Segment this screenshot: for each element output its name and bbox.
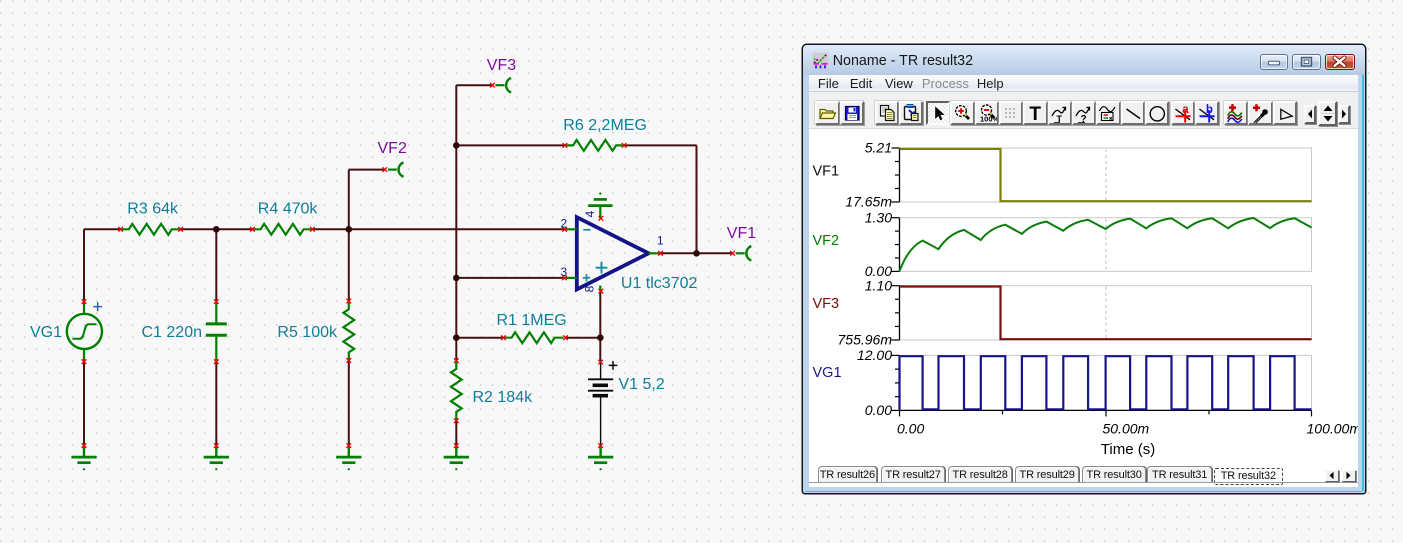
ground (VG1) [71,446,96,471]
node D (pin3 junction) [453,275,460,282]
battery V1 [588,361,617,446]
node A (C1 top junction) [213,226,220,233]
svg-text:12.00: 12.00 [857,347,892,363]
wire: R6 row y=145.5 [456,144,696,146]
svg-text:V1 5,2: V1 5,2 [619,376,665,393]
wire: R5 / VF2 branch x=349 [348,170,350,446]
svg-text:8: 8 [583,285,597,292]
wire: pin8 to node-C [599,291,601,338]
node F (R1 right/V1 junction) [597,334,604,341]
toolbar nav left [1304,105,1316,123]
voltage generator VG1 [30,299,102,364]
toolbar button zout [975,101,999,125]
window icon [812,52,829,69]
resistor R3 [118,201,183,235]
toolbar button paste [899,101,923,125]
toolbar button open [815,101,839,125]
node E (R1 left junction) [453,334,460,341]
tab TR result26 [818,466,878,482]
toolbar button curvq [1072,101,1096,125]
op-amp U1 tlc3702 [561,193,698,294]
trace VF1 [900,149,1312,201]
ground (V1) [588,446,613,471]
ground (C1) [204,446,229,471]
toolbar [809,92,1358,129]
tab TR result30 [1082,466,1146,482]
toolbar button copy [875,101,899,125]
tab TR result31 [1147,466,1212,482]
toolbar button leg [1096,101,1120,125]
svg-text:R1 1MEG: R1 1MEG [497,312,567,329]
50m gridline VG1 [1105,356,1107,409]
wire: VF3 horizontal stub [456,84,492,86]
resistor R2 [451,358,533,423]
node G (output/feedback junction) [693,250,700,257]
TR result window [803,45,1365,493]
svg-text:C1 220n: C1 220n [142,324,203,341]
voltage pin VF1 [736,246,752,260]
toolbar button tri [1273,101,1297,125]
toolbar button waves [1224,101,1248,125]
svg-text:R6 2,2MEG: R6 2,2MEG [563,117,647,134]
svg-text:VG1: VG1 [30,324,62,341]
svg-text:5.21: 5.21 [865,140,892,156]
wire: output row y=253.3 [661,252,733,254]
svg-text:17.65m: 17.65m [846,194,893,210]
plot frame VF1 [900,148,1312,202]
plot frame VF2 [900,218,1312,272]
toolbar button curvt [1048,101,1072,125]
tab TR result28 [948,466,1012,482]
resistor R1 [497,312,568,343]
50m gridline VF2 [1105,219,1107,271]
node C (VF3/R6 junction) [453,142,460,149]
svg-text:Time (s): Time (s) [1101,441,1155,458]
op-amp ground (pin 4 power symbol, flipped) [599,193,601,195]
wire: R2 bottom to ground [455,421,457,446]
voltage pin VF3 [495,78,511,92]
ground (R5) [336,446,361,471]
svg-text:0.00: 0.00 [897,421,924,437]
tab scroll right [1342,470,1356,482]
plot frame VG1 [900,355,1312,410]
plot frame VF3 [900,286,1312,340]
tab TR result29 [1015,466,1079,482]
svg-text:755.96m: 755.96m [838,332,893,348]
svg-text:0.00: 0.00 [865,402,892,418]
50m gridline VF3 [1105,287,1107,339]
svg-text:R2 184k: R2 184k [473,389,534,406]
title bar [803,45,1365,75]
toolbar button arrow [926,101,950,125]
node B (R5/VF2 junction) [346,226,353,233]
y-axis VG1 [892,355,900,410]
svg-text:VF2: VF2 [813,233,840,249]
capacitor C1 [142,299,227,364]
svg-text:U1 tlc3702: U1 tlc3702 [621,275,698,292]
toolbar button T [1023,101,1047,125]
y-axis VF3 [892,286,900,340]
svg-text:3: 3 [561,265,568,279]
tab scroll left [1325,470,1339,482]
wire: pin3 wire y=278 [456,277,564,279]
svg-text:VF1: VF1 [727,225,756,242]
svg-text:VF1: VF1 [813,163,840,179]
y-axis VF2 [892,218,900,272]
toolbar button line [1121,101,1145,125]
svg-text:50.00m: 50.00m [1103,421,1150,437]
trace VG1 [900,356,1312,409]
wire: C1 branch x=216 [215,229,217,445]
wire: VF2 horizontal stub [349,169,385,171]
maximize button [1292,54,1321,70]
menu bar [809,75,1358,92]
close button [1325,54,1355,70]
toolbar nav right [1338,105,1350,123]
trace VF2 [900,218,1312,271]
svg-text:VF2: VF2 [378,140,407,157]
svg-text:1.10: 1.10 [865,277,892,293]
50m gridline VF1 [1105,149,1107,201]
svg-text:2: 2 [561,216,568,230]
svg-text:VF3: VF3 [487,57,516,74]
svg-text:R4 470k: R4 470k [258,201,319,218]
resistor R6 [563,117,647,151]
x-axis [900,409,1312,411]
svg-text:4: 4 [583,210,597,217]
toolbar button pen [1248,101,1272,125]
resistor R5 [277,299,354,363]
tab baseline [809,482,1358,483]
svg-text:1: 1 [657,234,664,248]
tab TR result32 (active) [1214,468,1283,485]
svg-text:R5 100k: R5 100k [277,324,338,341]
toolbar button save [840,101,864,125]
toolbar button ca [1171,101,1195,125]
wire: R1 row y=337.7 [456,337,600,339]
toolbar button cb [1195,101,1219,125]
toolbar button zin [950,101,974,125]
tab TR result27 [881,466,945,482]
toolbar spinner [1318,101,1338,126]
wire: node-C to V1 [599,338,601,362]
wire: node-B vertical x=456 (VF3/R6/pin3/R1/R2) [455,85,457,360]
svg-text:VG1: VG1 [813,365,842,381]
wire: main input rail y=229 [84,228,565,230]
ground (R2) [444,446,469,471]
svg-text:100.00m: 100.00m [1307,421,1359,437]
trace VF3 [900,287,1312,340]
svg-text:R3 64k: R3 64k [127,201,179,218]
wire: VG1 branch x=84 [83,229,85,445]
toolbar button circ [1145,101,1169,125]
minimize button [1260,54,1289,70]
wire: feedback vertical x=696.5 [696,145,698,253]
svg-text:1.30: 1.30 [865,209,892,225]
resistor R4 [250,201,318,235]
y-axis VF1 [892,148,900,202]
toolbar button grid [999,101,1023,125]
svg-text:VF3: VF3 [813,296,840,312]
voltage pin VF2 [388,162,404,176]
